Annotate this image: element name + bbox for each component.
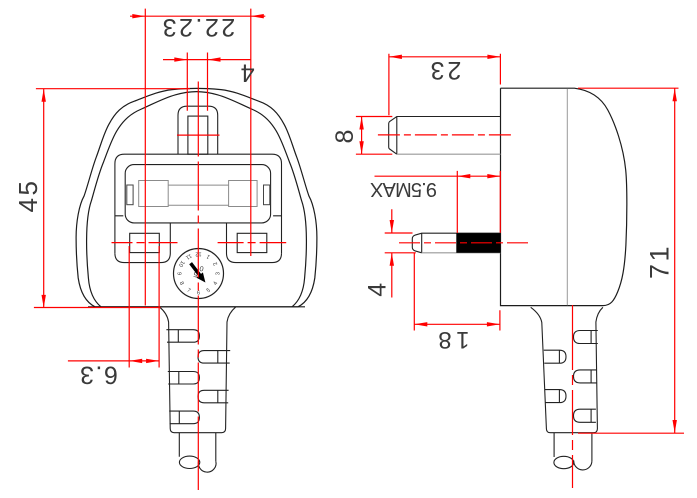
svg-text:18: 18 bbox=[434, 326, 470, 353]
arrowheads 18 bbox=[414, 322, 427, 326]
svg-text:4: 4 bbox=[238, 58, 254, 86]
dim 45 lines bbox=[34, 89, 190, 308]
dim 4 (side) lines bbox=[385, 209, 416, 297]
dim 71 lines bbox=[578, 88, 684, 433]
svg-text:10: 10 bbox=[177, 259, 185, 267]
svg-text:22.23: 22.23 bbox=[160, 13, 235, 41]
right pin pod bbox=[227, 216, 282, 263]
svg-text:2: 2 bbox=[213, 261, 220, 267]
svg-text:23: 23 bbox=[428, 56, 462, 84]
live pin centreline (side) bbox=[399, 242, 529, 244]
svg-text:1: 1 bbox=[206, 253, 212, 260]
plug body inner outline (front) bbox=[87, 92, 307, 307]
fuse left cap bbox=[139, 181, 169, 207]
svg-text:3: 3 bbox=[216, 272, 222, 275]
cable cross-section (side) bbox=[554, 456, 574, 468]
svg-text:4: 4 bbox=[213, 281, 220, 287]
svg-text:4: 4 bbox=[363, 280, 391, 296]
arrowheads 8 bbox=[359, 117, 363, 130]
dim 23 lines bbox=[389, 54, 501, 116]
boot rib left 2 (side) bbox=[545, 390, 566, 403]
boot rib left 1 (side) bbox=[544, 350, 566, 363]
cable (front) bbox=[179, 433, 216, 462]
cable boot (front) bbox=[159, 307, 236, 433]
svg-text:5: 5 bbox=[206, 288, 212, 295]
arrowheads 23 bbox=[389, 55, 402, 59]
svg-text:11: 11 bbox=[184, 252, 192, 260]
fuse barrel bbox=[168, 185, 228, 205]
dim 4 (front) lines bbox=[163, 53, 251, 111]
live pin insulation sleeve bbox=[456, 233, 500, 253]
earth pin centreline (side) bbox=[378, 134, 512, 136]
arrowheads 45 bbox=[42, 89, 46, 102]
cable boot (side) bbox=[531, 307, 603, 432]
fuse cover inner bbox=[125, 165, 270, 223]
cable end loop (front) bbox=[198, 461, 216, 473]
right pin centre mark (front) bbox=[218, 242, 287, 244]
left fuse clip bbox=[127, 185, 133, 205]
fuse right cap bbox=[229, 181, 258, 207]
body parting line (side) bbox=[566, 89, 568, 306]
left pin pod bbox=[115, 216, 170, 263]
svg-text:9.5MAX: 9.5MAX bbox=[370, 178, 437, 200]
dim 22.23 lines bbox=[130, 9, 265, 306]
earth pin (side) bbox=[389, 117, 501, 155]
arrowheads 22.23 bbox=[132, 14, 145, 18]
arrowheads 71 bbox=[673, 88, 677, 101]
cable cross-section (front) bbox=[179, 456, 199, 468]
dial numerals bbox=[175, 250, 221, 296]
vertical centreline (side boot) bbox=[572, 305, 574, 488]
cable (side) bbox=[554, 433, 592, 462]
boot rib left 1 bbox=[166, 330, 199, 343]
earth pin (front) bbox=[188, 116, 208, 154]
right fuse clip bbox=[264, 185, 270, 205]
plug body outer outline (front) bbox=[76, 88, 317, 306]
date dial circle bbox=[174, 249, 224, 299]
earth pin housing (front) bbox=[178, 106, 218, 154]
dim 6.3 lines bbox=[68, 246, 159, 368]
arrowheads 6.3 bbox=[129, 359, 142, 363]
left pin hole bbox=[130, 233, 160, 252]
cable end loop (side) bbox=[574, 461, 592, 470]
boot rib right 2 bbox=[198, 390, 229, 403]
dial arrow bbox=[189, 262, 205, 282]
plug body (side) bbox=[501, 88, 627, 305]
svg-text:8: 8 bbox=[331, 127, 359, 143]
arrowheads 9.5MAX bbox=[457, 174, 470, 178]
arrowheads 4 side bbox=[390, 220, 394, 233]
boot rib left 3 bbox=[169, 411, 199, 424]
boot rib right 2 (side) bbox=[574, 370, 597, 383]
boot rib left 2 bbox=[168, 372, 200, 385]
svg-text:45: 45 bbox=[13, 179, 43, 213]
earth pin centre mark (front) bbox=[177, 134, 220, 136]
svg-text:7: 7 bbox=[186, 288, 192, 295]
dim 9.5MAX lines bbox=[375, 171, 501, 233]
boot rib right 3 (side) bbox=[574, 409, 596, 422]
svg-text:6.3: 6.3 bbox=[79, 360, 118, 388]
right pin hole bbox=[237, 233, 267, 252]
svg-text:71: 71 bbox=[645, 244, 675, 279]
fuse cover outer bbox=[115, 154, 282, 253]
left pin centre mark (front) bbox=[112, 242, 178, 244]
live pin (side) bbox=[412, 233, 500, 253]
dim 8 lines bbox=[356, 116, 392, 154]
dim 18 lines bbox=[414, 253, 500, 331]
boot rib right 1 bbox=[198, 351, 230, 364]
svg-text:8: 8 bbox=[178, 281, 185, 287]
body bottom edge (front) bbox=[88, 306, 305, 308]
arrowheads 4 front bbox=[174, 57, 187, 61]
svg-text:9: 9 bbox=[175, 272, 181, 275]
vertical centreline (front) bbox=[197, 82, 199, 491]
boot rib right 1 (side) bbox=[574, 331, 598, 344]
dimension texts bbox=[13, 13, 675, 388]
